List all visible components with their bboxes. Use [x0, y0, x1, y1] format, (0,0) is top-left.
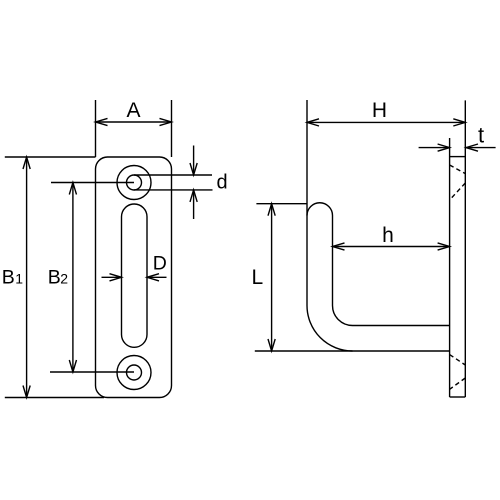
D right arrow shaft [147, 276, 167, 278]
arrowhead H right [453, 119, 465, 126]
arrowhead H left [307, 119, 319, 126]
top hole inner circle [127, 175, 142, 190]
arrowhead L bottom [268, 339, 275, 351]
t left arrow shaft [419, 147, 450, 149]
arrowhead B1 top [23, 157, 30, 169]
arrowhead B2 top [69, 183, 76, 195]
dimension line h [333, 246, 450, 248]
svg-text:h: h [382, 224, 394, 247]
extension line B1 bottom [5, 397, 104, 399]
svg-text:2: 2 [60, 271, 68, 287]
bottom hole inner circle [127, 365, 142, 380]
top hole outer circle [117, 166, 151, 200]
hook bottom line / L bottom extension [255, 350, 450, 352]
break line dashes top [450, 165, 466, 200]
dimension line L [271, 204, 273, 351]
svg-text:H: H [372, 99, 387, 122]
arrowhead A right [160, 118, 172, 125]
arrowhead A left [96, 118, 108, 125]
svg-text:t: t [478, 123, 484, 148]
extension line B2 top (through top hole centre) [51, 182, 134, 184]
extension line A right [171, 100, 173, 157]
arrowhead B1 bottom [23, 386, 30, 398]
d upper arrow shaft [193, 146, 195, 176]
d lower arrow shaft [193, 190, 195, 219]
break line dashes bottom [450, 355, 466, 390]
arrowhead t right (pointing left) [466, 144, 478, 151]
wall plate bottom edge [450, 396, 466, 398]
D left arrow shaft [102, 276, 122, 278]
arrowhead D right (pointing left at slot edge) [147, 274, 159, 281]
arrowhead d lower (pointing up) [190, 190, 197, 202]
arrowhead L top [268, 204, 275, 216]
arrowhead d upper (pointing down) [190, 163, 197, 175]
svg-text:1: 1 [15, 271, 23, 287]
extension line L top [256, 203, 307, 205]
svg-text:B: B [48, 267, 61, 289]
extension line A left [95, 100, 97, 157]
extension line B2 bottom (through bottom hole centre) [50, 371, 134, 373]
svg-text:B: B [2, 267, 15, 289]
wall plate left face [449, 138, 451, 397]
arrowhead B2 bottom [69, 360, 76, 372]
arrowhead h left [333, 243, 345, 250]
leader line d top tangent [134, 174, 212, 176]
svg-text:L: L [252, 266, 264, 289]
extension line H left [306, 100, 308, 216]
dimension line B1 [26, 157, 28, 398]
dimension line B2 [72, 183, 74, 373]
arrowhead D left (pointing right at slot edge) [110, 274, 122, 281]
arrowhead h right [438, 243, 450, 250]
arrowhead t left (pointing right) [438, 144, 450, 151]
extension line B1 top [5, 156, 96, 158]
bottom hole outer circle [117, 356, 151, 390]
dimension line H [307, 121, 465, 123]
leader line d bottom tangent [134, 189, 213, 191]
svg-text:d: d [217, 172, 228, 194]
t right arrow shaft [466, 147, 496, 149]
hook outline (side view) [307, 203, 450, 351]
svg-text:D: D [153, 253, 167, 275]
wall plate right face [464, 100, 466, 397]
svg-text:A: A [126, 99, 140, 122]
dimension line A [96, 121, 172, 123]
plate outline (front view) [96, 157, 172, 398]
slot (elongated hole) [122, 204, 148, 347]
wall plate top edge [450, 156, 466, 158]
